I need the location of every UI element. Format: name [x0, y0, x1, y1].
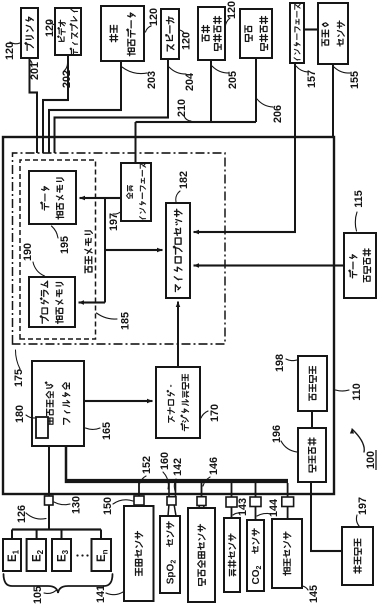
svg-text:160: 160	[159, 452, 171, 470]
svg-text:155: 155	[349, 71, 361, 89]
svg-text:120: 120	[226, 1, 238, 19]
svg-text:150: 150	[102, 497, 114, 515]
svg-text:204: 204	[184, 73, 196, 91]
svg-text:120: 120	[180, 32, 192, 50]
svg-text:142: 142	[172, 458, 184, 476]
svg-text:198: 198	[274, 354, 286, 372]
svg-text:126: 126	[16, 505, 28, 523]
svg-text:203: 203	[146, 71, 158, 89]
svg-text:146: 146	[208, 457, 220, 475]
svg-text:145: 145	[308, 585, 320, 603]
svg-text:197: 197	[357, 497, 369, 515]
svg-text:182: 182	[178, 171, 190, 189]
svg-text:105: 105	[32, 586, 44, 604]
svg-text:180: 180	[14, 405, 26, 423]
svg-text:170: 170	[209, 404, 221, 422]
svg-text:202: 202	[61, 70, 73, 88]
svg-text:210: 210	[176, 99, 188, 117]
svg-text:130: 130	[70, 496, 82, 514]
svg-text:157: 157	[306, 70, 318, 88]
svg-text:144: 144	[268, 499, 280, 517]
svg-text:100: 100	[365, 451, 377, 469]
svg-text:206: 206	[272, 105, 284, 123]
svg-text:110: 110	[351, 383, 363, 400]
svg-text:152: 152	[141, 456, 153, 474]
svg-text:175: 175	[13, 369, 25, 387]
svg-text:120: 120	[148, 8, 160, 26]
svg-text:165: 165	[101, 422, 113, 440]
svg-text:185: 185	[119, 312, 131, 330]
svg-text:190: 190	[22, 243, 34, 261]
svg-text:195: 195	[59, 236, 71, 254]
svg-text:115: 115	[353, 190, 365, 207]
svg-text:197: 197	[108, 213, 120, 231]
svg-text:205: 205	[227, 71, 239, 89]
svg-text:201: 201	[29, 62, 41, 80]
svg-text:196: 196	[271, 425, 283, 443]
svg-text:141: 141	[95, 585, 107, 603]
svg-text:120: 120	[4, 42, 16, 60]
